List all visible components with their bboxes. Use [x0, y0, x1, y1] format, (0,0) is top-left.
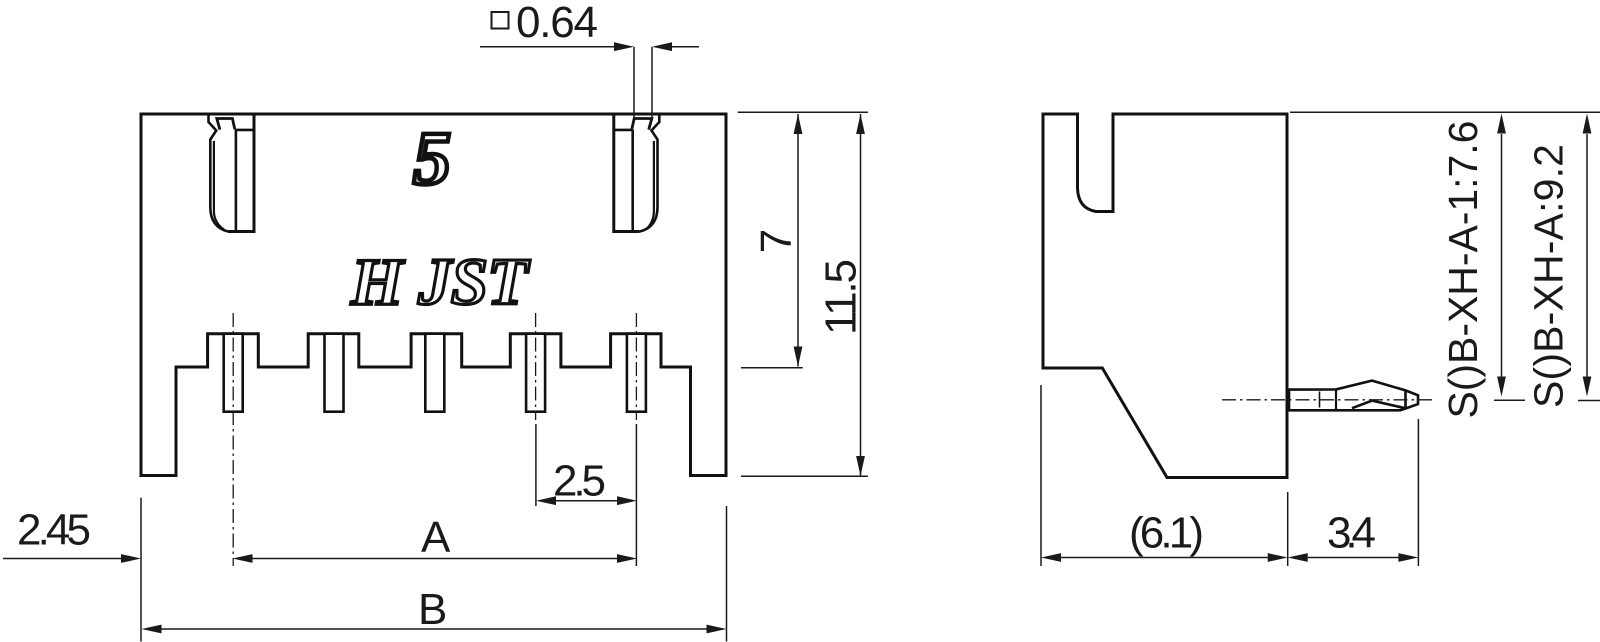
svg-text:S()B-XH-A-1:7.6: S()B-XH-A-1:7.6 — [1440, 121, 1486, 419]
arrow 2.45 right — [121, 554, 141, 563]
side pin centerline — [1222, 399, 1433, 401]
svg-text:2.45: 2.45 — [17, 506, 91, 555]
arrow 3.4 left — [1288, 553, 1308, 562]
dim 7.6 line — [1501, 134, 1503, 377]
right latch slot left edge — [614, 114, 640, 232]
pin side view outline — [1289, 381, 1418, 411]
dim 6.1 line — [1061, 557, 1268, 559]
dim 2.5 left extension — [535, 424, 537, 506]
body right extension line — [726, 506, 728, 642]
arrow 0.64 left — [614, 42, 634, 51]
svg-text:B: B — [418, 585, 447, 634]
pin 4 centerline — [535, 313, 537, 420]
arrow 7.6 up — [1497, 114, 1506, 134]
pin5 extension line — [635, 424, 637, 566]
arrow 7.6 down — [1497, 377, 1506, 397]
pin 1 centerline — [232, 313, 234, 566]
left latch slot right edge — [228, 114, 254, 232]
left latch tip — [217, 119, 235, 130]
body left extension line — [140, 498, 142, 642]
svg-text:2.5: 2.5 — [553, 457, 606, 506]
pin 2 front — [325, 334, 344, 412]
pin side tip vertical — [1404, 390, 1407, 408]
svg-text:5: 5 — [413, 117, 451, 201]
svg-text:(6.1): (6.1) — [1129, 508, 1204, 557]
svg-text:0.64: 0.64 — [516, 0, 598, 47]
dim 2.5 line — [556, 500, 617, 502]
connector body side view outline — [1043, 114, 1287, 478]
arrow B right — [707, 625, 727, 634]
pin 1 front — [224, 334, 243, 412]
dim 0.64 line left segment — [480, 46, 614, 48]
arrow 11.5 down — [856, 456, 865, 476]
pin tip extension — [1417, 419, 1419, 566]
arrow 2.5 right — [617, 496, 637, 505]
dim 0.64 square symbol — [492, 12, 509, 29]
dim 7 top extension — [738, 111, 868, 113]
right latch vertical edge — [631, 130, 634, 232]
centerlines dash-dot — [233, 313, 1433, 566]
dim 2.45 line — [3, 558, 121, 560]
arrow 9.2 down — [1583, 377, 1592, 397]
svg-text:S()B-XH-A:9.2: S()B-XH-A:9.2 — [1526, 144, 1572, 408]
arrow 9.2 up — [1583, 114, 1592, 134]
dim 3.4 line — [1308, 557, 1399, 559]
side view middle extension — [1287, 492, 1289, 566]
dim 7.6 centerline tick — [1494, 399, 1525, 401]
pin 3 front — [425, 334, 444, 412]
pin 5 front — [627, 334, 646, 412]
pin side inner vertical at taper — [1335, 389, 1337, 410]
arrow 11.5 up — [856, 114, 865, 134]
arrow 6.1 right — [1268, 553, 1288, 562]
dim 7 line — [797, 114, 799, 367]
dim 9.2 line — [1586, 134, 1588, 377]
arrow B left — [142, 625, 162, 634]
svg-text:A: A — [421, 513, 451, 562]
svg-text:3.4: 3.4 — [1327, 508, 1376, 557]
arrow 0.64 right — [652, 42, 672, 51]
pin 5 centerline — [635, 313, 637, 420]
right latch slot inner line — [646, 141, 654, 230]
arrow A left — [233, 554, 253, 563]
svg-text:H JST: H JST — [350, 245, 531, 319]
left latch slot outer contour — [209, 115, 229, 232]
dim A line — [252, 558, 617, 560]
side view left extension — [1040, 385, 1042, 566]
dim 7 bottom extension — [741, 367, 803, 369]
right latch tip — [632, 119, 652, 130]
connector body front view outline — [141, 114, 726, 476]
arrow 2.5 left — [536, 496, 556, 505]
left latch shelf line — [235, 129, 253, 132]
dim 11.5 bottom extension — [741, 475, 868, 477]
arrow 7 down — [794, 347, 803, 367]
dim 9.2 centerline tick — [1578, 400, 1600, 402]
arrow A right — [617, 554, 637, 563]
right latch shelf line — [614, 129, 632, 132]
svg-text:7: 7 — [752, 229, 801, 253]
arrow 6.1 left — [1041, 553, 1061, 562]
arrow 3.4 right — [1398, 553, 1418, 562]
left latch slot inner line — [214, 141, 224, 230]
side top extension line — [1290, 111, 1600, 113]
arrow 7 up — [794, 114, 803, 134]
dim B line — [162, 628, 707, 630]
right latch slot outer contour — [640, 115, 660, 232]
pin 4 front — [526, 334, 545, 412]
dim 11.5 line — [860, 114, 862, 476]
dim 0.64 extension lines — [634, 47, 652, 118]
pin side chevron — [1352, 401, 1405, 409]
left latch vertical edge — [235, 130, 238, 232]
svg-text:11.5: 11.5 — [817, 259, 866, 335]
pin side small tick — [1319, 392, 1321, 408]
dim 0.64 line right segment — [672, 46, 699, 48]
